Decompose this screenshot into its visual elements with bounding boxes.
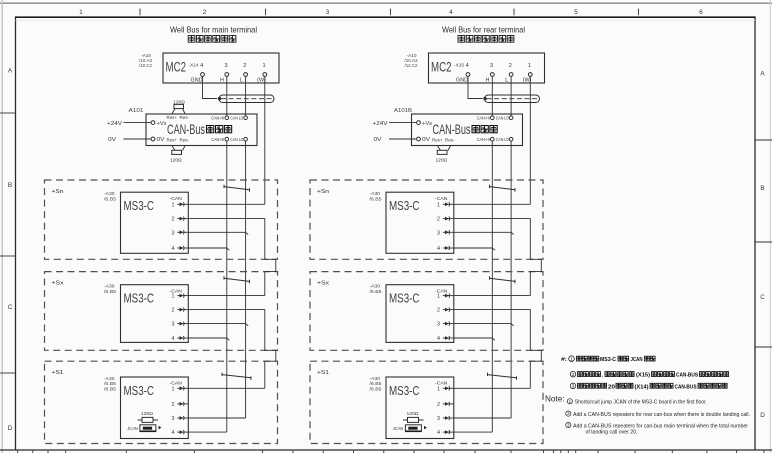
svg-text:2: 2 — [172, 402, 175, 408]
svg-text:-A30: -A30 — [370, 191, 381, 197]
svg-text:CAN-LO: CAN-LO — [230, 137, 243, 142]
note chinese line 3 (over 20 floors X14 add CAN-BUS repeater) — [570, 383, 727, 390]
svg-text:A101: A101 — [129, 108, 144, 114]
svg-text:5: 5 — [574, 9, 578, 16]
svg-text:0V: 0V — [157, 137, 165, 143]
wire row B pin3 to CAN-L bus (main) — [188, 232, 248, 234]
pin 2 (L) of -X14 main — [240, 63, 248, 84]
wire CAN-L pin2 down to repeater (rear) — [510, 77, 512, 116]
resistor 120R inside MS3-C (main row D) — [138, 411, 159, 422]
wire row B pin1 from (W) bus (rear) — [454, 203, 531, 205]
twisted-pair crossing symbol (main row B) — [224, 185, 250, 192]
resistor 120R top of main repeater — [172, 100, 185, 114]
svg-text:Res-: Res- — [180, 115, 190, 120]
svg-text:CAN-BUS: CAN-BUS — [675, 384, 697, 390]
row tick marks right margin — [755, 140, 772, 347]
wire row B pin1 from (W) bus (main) — [188, 203, 264, 205]
dashed enclosure +Sx (rear row C) — [310, 272, 543, 351]
svg-text:CAN-LO: CAN-LO — [496, 137, 509, 142]
svg-text:4: 4 — [449, 9, 453, 16]
pin 2 of -CAN (main row B) — [172, 217, 189, 223]
wire row B pin2 daisy-chain down (main) — [188, 219, 275, 296]
svg-text:-X15: -X15 — [454, 63, 464, 69]
label repeater chinese (main) — [207, 126, 232, 133]
pin 2 of -CAN (rear row C) — [437, 308, 454, 314]
pin 1 of -CAN (main row B) — [172, 202, 189, 208]
wire row C pin1 from daisy chain (rear) — [454, 295, 531, 297]
svg-text:C: C — [760, 294, 765, 301]
pin 3 of -CAN (main row B) — [172, 230, 189, 236]
board MS3-C box (rear row D) — [386, 377, 454, 439]
svg-text:/6.B5: /6.B5 — [370, 381, 382, 387]
pin 4 (GND) of -X15 rear — [456, 63, 470, 84]
svg-text:A101B: A101B — [394, 108, 412, 114]
svg-text:/6.B5: /6.B5 — [104, 381, 116, 387]
svg-text:/8.B5: /8.B5 — [104, 387, 116, 393]
wire GND pin4 to cable screen (rear) — [468, 76, 483, 98]
device label -A30 (main row C) — [104, 284, 116, 295]
svg-text:L: L — [240, 78, 243, 84]
wire GND pin4 to cable screen (main) — [203, 76, 218, 98]
svg-text:/6.B5: /6.B5 — [370, 196, 382, 202]
svg-text:CAN-HI: CAN-HI — [477, 137, 490, 142]
svg-text:+Vs: +Vs — [157, 121, 167, 127]
bus CAN-H vertical (main) — [226, 141, 228, 432]
svg-text:0V: 0V — [422, 137, 430, 143]
svg-text:JCAN: JCAN — [631, 357, 643, 363]
svg-text:1: 1 — [172, 294, 175, 300]
svg-text:3: 3 — [437, 416, 440, 422]
twisted-pair crossing symbol (main row D) — [222, 373, 251, 380]
pin 3 (H) of -X15 rear — [486, 63, 495, 84]
scan edge line left — [1, 0, 3, 453]
column tick marks — [140, 9, 639, 16]
twisted-pair crossing symbol (rear row D) — [488, 373, 517, 380]
svg-text:CAN-HI: CAN-HI — [211, 115, 224, 120]
svg-text:+Sn: +Sn — [52, 189, 64, 195]
svg-text:Well Bus for rear terminal: Well Bus for rear terminal — [442, 26, 525, 35]
svg-text:of landing call over 20.: of landing call over 20. — [586, 429, 638, 435]
svg-text:6: 6 — [699, 9, 703, 16]
svg-text:2: 2 — [172, 217, 175, 223]
svg-text:H: H — [220, 78, 224, 84]
sheet frame border — [15, 17, 17, 450]
terminal +Vs with +24V feed (main) — [107, 121, 167, 127]
svg-text:2: 2 — [437, 402, 440, 408]
svg-text:MS3-C: MS3-C — [389, 198, 420, 213]
device label A101 (-A10 /10.A3 /10.C2) for MC2 main — [139, 53, 152, 69]
wire CAN-H pin3 down to repeater (rear) — [491, 77, 493, 116]
controller MC2 box (rear) — [429, 53, 545, 83]
pin 4 (GND) of -X14 main — [191, 63, 205, 84]
pin 1 ((W)) of -X14 main — [257, 63, 267, 84]
device label -A30 (main row D) — [104, 376, 116, 393]
svg-text:3: 3 — [437, 230, 440, 236]
svg-text:4: 4 — [200, 63, 203, 69]
pin 1 of -CAN (rear row C) — [437, 294, 454, 300]
svg-text:/6.B5: /6.B5 — [104, 289, 116, 295]
svg-text:1: 1 — [570, 356, 573, 362]
svg-text:#:: #: — [561, 357, 567, 363]
svg-text:1: 1 — [172, 386, 175, 392]
svg-text:GND: GND — [456, 78, 468, 84]
svg-text:H: H — [486, 78, 490, 84]
pin 3 of -CAN (main row C) — [172, 322, 189, 328]
note english 3 (main terminal repeater) — [566, 422, 748, 435]
pin 3 of -CAN (main row D) — [172, 416, 189, 422]
svg-text:2: 2 — [437, 308, 440, 314]
svg-text:Res-: Res- — [445, 138, 455, 143]
pin 4 of -CAN (main row D) — [172, 430, 189, 436]
pin 4 of -CAN (main row B) — [172, 246, 189, 252]
title chinese (rear well bus) — [458, 36, 514, 43]
svg-text:A: A — [8, 68, 13, 75]
repeater CAN-HI/CAN-LO terminals bottom (main) — [211, 137, 247, 142]
device label -A30 (rear row C) — [370, 284, 382, 295]
pin 2 of -CAN (main row D) — [172, 402, 189, 408]
pin 4 of -CAN (rear row D) — [437, 430, 454, 436]
wire row D pin4 to CAN-H bus end (main) — [188, 431, 227, 433]
svg-text:2: 2 — [203, 9, 207, 16]
terminal +Vs with +24V feed (rear) — [373, 121, 433, 127]
wire row C pin2 daisy-chain down (main) — [188, 310, 275, 389]
note chinese line 2 (X15 add CAN-BUS repeater) — [570, 371, 728, 378]
title chinese (main well bus) — [188, 36, 236, 43]
dashed enclosure +Sn (rear row B) — [310, 180, 543, 259]
svg-text:B: B — [8, 182, 12, 189]
pin 3 (H) of -X14 main — [220, 63, 229, 84]
board MS3-C box (rear row C) — [386, 285, 454, 343]
svg-text:3: 3 — [326, 9, 330, 16]
wire row C pin3 to CAN-L bus (main) — [188, 324, 248, 326]
svg-text:+Sx: +Sx — [317, 281, 329, 287]
svg-text:120Ω: 120Ω — [170, 158, 182, 164]
repeater CAN-HI/CAN-LO terminals top (rear) — [477, 115, 513, 120]
svg-text:120Ω: 120Ω — [407, 411, 419, 417]
svg-text:+Sx: +Sx — [52, 281, 64, 287]
pin 4 of -CAN (rear row C) — [437, 336, 454, 342]
twisted-pair crossing symbol (rear row B) — [490, 185, 516, 192]
svg-text:0V: 0V — [108, 137, 116, 143]
scan edge line right — [769, 0, 771, 453]
bus CAN-H vertical (rear) — [491, 141, 493, 432]
board MS3-C box (main row B) — [121, 192, 189, 253]
svg-text:-X14: -X14 — [189, 63, 199, 69]
label Res+ Res- (bottom, rear repeater) — [432, 138, 455, 143]
svg-text:-CAN: -CAN — [170, 196, 183, 202]
wire row D pin1 from daisy chain (main) — [188, 387, 264, 389]
bus CAN-L vertical (main) — [245, 141, 247, 418]
wire row D pin4 to CAN-H bus end (rear) — [454, 431, 493, 433]
svg-text:(X14): (X14) — [635, 384, 649, 390]
dashed enclosure +S1 (rear row D) — [310, 361, 543, 443]
svg-text:3: 3 — [172, 416, 175, 422]
svg-text:2: 2 — [572, 372, 575, 378]
wire CAN-H pin3 down to repeater (main) — [226, 77, 228, 116]
twisted-pair crossing symbol (main row C) — [224, 276, 250, 283]
svg-text:-A30: -A30 — [370, 284, 381, 290]
svg-text:4: 4 — [172, 246, 175, 252]
svg-text:120Ω: 120Ω — [436, 158, 448, 164]
cable screen (shield) symbol (rear) — [485, 95, 540, 103]
svg-text:4: 4 — [466, 63, 469, 69]
device label -A30 (main row B) — [104, 191, 116, 202]
svg-text:-A30: -A30 — [370, 376, 381, 382]
svg-text:-A30: -A30 — [104, 191, 115, 197]
svg-text:CAN-BUS: CAN-BUS — [676, 373, 698, 379]
svg-text:MC2: MC2 — [166, 60, 187, 75]
svg-text:Well Bus for main terminal: Well Bus for main terminal — [170, 26, 257, 35]
svg-text:Shortcircuit jump JCAN of the: Shortcircuit jump JCAN of the MS3-C boar… — [575, 400, 707, 406]
svg-text:(X15): (X15) — [636, 373, 650, 379]
row tick marks left margin — [0, 113, 16, 373]
svg-text:D: D — [760, 412, 765, 419]
wire row C pin2 daisy-chain down (rear) — [454, 310, 542, 389]
svg-text:/6.B5: /6.B5 — [370, 289, 382, 295]
svg-text:MS3-C: MS3-C — [600, 357, 616, 363]
svg-text:CAN-HI: CAN-HI — [211, 137, 224, 142]
terminal 0V with 0V feed (main) — [108, 137, 165, 143]
svg-text:B: B — [760, 185, 764, 192]
pin 1 of -CAN (main row C) — [172, 294, 189, 300]
note english 1 (shortcircuit jump JCAN) — [567, 399, 707, 406]
wire row D pin1 from daisy chain (rear) — [454, 387, 531, 389]
svg-text:Add a CAN-BUS repeaters for re: Add a CAN-BUS repeaters for rear can-bus… — [573, 412, 750, 418]
pin 1 of -CAN (main row D) — [172, 386, 189, 392]
pin 2 of -CAN (rear row D) — [437, 402, 454, 408]
jumper JCAN (rear row D) — [393, 425, 427, 432]
svg-text:3: 3 — [490, 63, 493, 69]
svg-text:3: 3 — [172, 322, 175, 328]
svg-text:1: 1 — [437, 386, 440, 392]
svg-text:Res-: Res- — [180, 138, 190, 143]
label Res+ Res- (bottom, main repeater) — [167, 138, 190, 143]
svg-text:L: L — [505, 78, 508, 84]
svg-text:1: 1 — [262, 63, 265, 69]
bus CAN-L vertical (rear) — [510, 141, 512, 418]
board MS3-C box (main row D) — [121, 377, 189, 439]
svg-text:-CAN: -CAN — [435, 196, 448, 202]
svg-text:3: 3 — [224, 63, 227, 69]
svg-text:3: 3 — [172, 230, 175, 236]
wire (W) pin1 down to first MS3-C (main) — [264, 77, 266, 205]
svg-text:MS3-C: MS3-C — [124, 291, 155, 306]
wire (W) pin1 down to first MS3-C (rear) — [529, 77, 531, 205]
jumper JCAN (main row D) — [127, 425, 161, 432]
resistor 120R bottom of rear repeater — [436, 146, 451, 164]
svg-text:0V: 0V — [374, 137, 382, 143]
pin 3 of -CAN (rear row C) — [437, 322, 454, 328]
svg-text:/6.B5: /6.B5 — [104, 196, 116, 202]
svg-text:/10.C2: /10.C2 — [139, 63, 152, 69]
svg-text:2: 2 — [172, 308, 175, 314]
wire row C pin4 to CAN-H bus (main) — [188, 338, 229, 340]
scan edge line top — [0, 2, 772, 4]
svg-text:3: 3 — [437, 322, 440, 328]
title block top line ticks — [18, 451, 764, 453]
svg-text:+24V: +24V — [373, 121, 388, 127]
svg-text:Res+: Res+ — [432, 138, 443, 143]
svg-text:MS3-C: MS3-C — [389, 383, 420, 398]
wire row D pin3 to CAN-L bus end (main) — [188, 417, 245, 419]
repeater CAN-HI/CAN-LO terminals top (main) — [211, 115, 247, 120]
svg-text:120Ω: 120Ω — [141, 411, 153, 417]
pin 4 of -CAN (rear row B) — [437, 246, 454, 252]
svg-text:1: 1 — [437, 294, 440, 300]
wire CAN-L pin2 down to repeater (main) — [245, 77, 247, 116]
svg-text:20: 20 — [608, 384, 615, 390]
svg-text:2: 2 — [243, 63, 246, 69]
svg-text:CAN-LO: CAN-LO — [230, 115, 243, 120]
pin 2 of -CAN (main row C) — [172, 308, 189, 314]
dashed enclosure +Sn (main row B) — [45, 180, 278, 259]
wire row D pin3 to CAN-L bus end (rear) — [454, 417, 511, 419]
svg-text:+24V: +24V — [107, 121, 122, 127]
label repeater chinese (rear) — [472, 126, 497, 133]
board MS3-C box (main row C) — [121, 285, 189, 343]
pin 1 of -CAN (rear row D) — [437, 386, 454, 392]
wire row B pin4 to CAN-H bus (rear) — [454, 248, 495, 250]
resistor 120R inside MS3-C (rear row D) — [403, 411, 424, 422]
svg-text:/8.B5: /8.B5 — [370, 387, 382, 393]
svg-text:+S1: +S1 — [52, 370, 64, 376]
device label -A30 (rear row B) — [370, 191, 382, 202]
svg-text:JCAN: JCAN — [393, 426, 404, 432]
svg-text:MS3-C: MS3-C — [124, 198, 155, 213]
svg-text:1: 1 — [437, 202, 440, 208]
svg-text:MC2: MC2 — [431, 60, 452, 75]
svg-text:3: 3 — [572, 384, 575, 390]
svg-text:4: 4 — [437, 336, 440, 342]
pin 3 of -CAN (rear row B) — [437, 230, 454, 236]
repeater CAN-HI/CAN-LO terminals bottom (rear) — [477, 137, 513, 142]
terminal 0V with 0V feed (rear) — [374, 137, 431, 143]
svg-text:1: 1 — [528, 63, 531, 69]
label Res+ Res- (top, main repeater) — [167, 115, 190, 120]
svg-text:4: 4 — [172, 430, 175, 436]
svg-text:-A30: -A30 — [104, 284, 115, 290]
wire row C pin4 to CAN-H bus (rear) — [454, 338, 495, 340]
device label -A30 (rear row D) — [370, 376, 382, 393]
cable screen (shield) symbol (main) — [219, 95, 274, 103]
wire row B pin2 daisy-chain down (rear) — [454, 219, 542, 296]
svg-text:+S1: +S1 — [317, 370, 329, 376]
svg-text:4: 4 — [437, 430, 440, 436]
pin 1 ((W)) of -X15 rear — [523, 63, 533, 84]
svg-text:/12.C2: /12.C2 — [405, 63, 418, 69]
wire row B pin4 to CAN-H bus (main) — [188, 248, 229, 250]
svg-text:4: 4 — [172, 336, 175, 342]
svg-text:2: 2 — [437, 217, 440, 223]
pin 4 of -CAN (main row C) — [172, 336, 189, 342]
device label A101B (-A10 /10.A3 /12.C2) for MC2 rear — [405, 53, 418, 69]
svg-text:GND: GND — [191, 78, 203, 84]
dashed enclosure +Sx (main row C) — [45, 272, 278, 351]
svg-text:CAN-Bus: CAN-Bus — [433, 121, 471, 137]
dashed enclosure +S1 (main row D) — [45, 361, 278, 443]
CAN-Bus repeater box (main) — [146, 114, 257, 146]
svg-text:MS3-C: MS3-C — [124, 383, 155, 398]
svg-text:C: C — [8, 304, 13, 311]
wire row C pin1 from daisy chain (main) — [188, 295, 264, 297]
note english 2 (rear can-bus repeater) — [566, 411, 750, 418]
wire row B pin3 to CAN-L bus (rear) — [454, 232, 514, 234]
pin 2 of -CAN (rear row B) — [437, 217, 454, 223]
svg-text:Note:: Note: — [545, 395, 565, 404]
CAN-Bus repeater box (rear) — [412, 114, 523, 146]
pin 3 of -CAN (rear row D) — [437, 416, 454, 422]
wire row C pin3 to CAN-L bus (rear) — [454, 324, 514, 326]
board MS3-C box (rear row B) — [386, 192, 454, 253]
svg-text:A: A — [760, 71, 765, 78]
pin 1 of -CAN (rear row B) — [437, 202, 454, 208]
svg-text:4: 4 — [437, 246, 440, 252]
svg-text:+Vs: +Vs — [422, 121, 432, 127]
resistor 120R bottom of main repeater — [170, 146, 185, 164]
svg-text:CAN-HI: CAN-HI — [477, 115, 490, 120]
svg-text:1: 1 — [172, 202, 175, 208]
svg-text:JCAN: JCAN — [127, 426, 138, 432]
svg-text:-A30: -A30 — [104, 376, 115, 382]
svg-text:CAN-Bus: CAN-Bus — [167, 121, 205, 137]
svg-text:+Sn: +Sn — [317, 189, 329, 195]
svg-text:Res+: Res+ — [167, 138, 178, 143]
pin 2 (L) of -X15 rear — [505, 63, 513, 84]
svg-text:1: 1 — [79, 9, 83, 16]
svg-text:MS3-C: MS3-C — [389, 291, 420, 306]
svg-text:D: D — [8, 425, 13, 432]
svg-text:Res+: Res+ — [167, 115, 178, 120]
svg-text:CAN-LO: CAN-LO — [496, 115, 509, 120]
controller MC2 box (main) — [163, 53, 279, 83]
twisted-pair crossing symbol (rear row C) — [490, 276, 516, 283]
svg-text:2: 2 — [509, 63, 512, 69]
note chinese line 1 (#: short JCAN jumper) — [561, 356, 655, 363]
